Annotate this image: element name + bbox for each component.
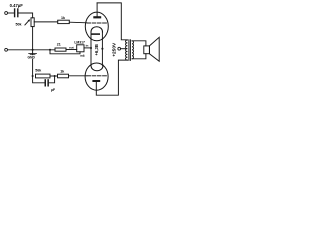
node: right rail junction xyxy=(101,48,103,50)
top wire plate V1 to transformer xyxy=(97,3,127,40)
svg-text:+250V: +250V xyxy=(112,42,118,57)
svg-text:1k: 1k xyxy=(61,16,65,20)
resistor R4 56k body xyxy=(36,74,51,78)
wire R3 to LM317 out xyxy=(66,49,77,51)
ground bus wire xyxy=(8,49,56,51)
node: 2k branch junction xyxy=(49,49,51,51)
svg-text:0.47µF: 0.47µF xyxy=(10,3,24,8)
wire R4 right to junction xyxy=(50,75,58,77)
svg-text:+6,3B: +6,3B xyxy=(94,44,99,55)
tube V2 filament arc xyxy=(91,65,103,71)
LM317 U1 box xyxy=(77,45,84,52)
input terminal J2 (ground) xyxy=(5,48,8,51)
filament rail left xyxy=(90,32,92,66)
capacitor C1 0.47uF xyxy=(14,8,19,17)
transformer T1 primary xyxy=(126,40,128,60)
potentiometer wiper arrow xyxy=(25,20,29,25)
speaker LS1 box xyxy=(144,46,150,54)
ground symbol xyxy=(29,53,37,54)
+250V terminal xyxy=(118,47,121,50)
transformer core xyxy=(128,40,130,61)
resistor R3 2k body xyxy=(55,48,66,51)
resistor R5 1k body xyxy=(58,74,69,78)
filament rail right xyxy=(101,32,103,66)
svg-text:in: in xyxy=(86,43,89,47)
transformer T1 secondary xyxy=(132,41,134,59)
wire pot bottom xyxy=(32,27,34,50)
potentiometer R1 50k body xyxy=(31,18,34,27)
svg-text:50k: 50k xyxy=(16,22,22,26)
input terminal J1 (signal) xyxy=(5,12,8,15)
wire +250V to primary xyxy=(121,48,126,50)
tube V2 envelope xyxy=(85,63,108,90)
plate lead V2 xyxy=(96,60,127,95)
svg-text:GND: GND xyxy=(28,56,36,60)
resistor R2 1k body xyxy=(58,20,70,23)
wire bypass branch right xyxy=(49,76,55,83)
svg-text:56k: 56k xyxy=(35,68,41,72)
wire secondary top to speaker xyxy=(132,41,146,46)
plate lead V1 xyxy=(96,3,98,16)
tube V1 envelope xyxy=(85,12,108,41)
tube V1 grid (dashed) xyxy=(87,22,106,24)
node: cathode net left junction xyxy=(32,75,34,77)
node: pot bottom junction xyxy=(32,49,34,51)
svg-text:1k: 1k xyxy=(60,70,64,74)
wire R5 to grid of V2 xyxy=(69,75,87,77)
wire xyxy=(19,13,33,18)
wire LM317 in to left rail xyxy=(84,47,91,49)
wire R2 to grid of V1 xyxy=(69,21,87,24)
node: LM317 out junction xyxy=(90,47,92,49)
tube V1 cathode bar xyxy=(91,33,100,35)
capacitor C2 plates xyxy=(45,79,49,86)
wire ground column down xyxy=(32,50,34,76)
svg-text:LM317: LM317 xyxy=(74,41,85,45)
tube V2 plate xyxy=(92,80,100,82)
svg-text:out: out xyxy=(69,46,74,50)
svg-text:21: 21 xyxy=(57,43,61,47)
node: cathode net mid junction xyxy=(54,75,56,77)
svg-text:adj: adj xyxy=(80,54,85,58)
wire secondary bottom to speaker xyxy=(132,54,146,59)
svg-text:µF: µF xyxy=(51,88,55,92)
wire adj loop xyxy=(50,50,80,54)
wire bypass branch left xyxy=(33,76,45,83)
label GND xyxy=(28,55,36,59)
tube V2 grid (dashed) xyxy=(87,75,106,77)
wire pot wiper to R2 xyxy=(34,21,58,23)
tube V1 filament arc xyxy=(91,27,103,32)
speaker cone xyxy=(149,37,159,61)
tube V1 plate xyxy=(93,16,101,18)
wire xyxy=(8,12,15,14)
